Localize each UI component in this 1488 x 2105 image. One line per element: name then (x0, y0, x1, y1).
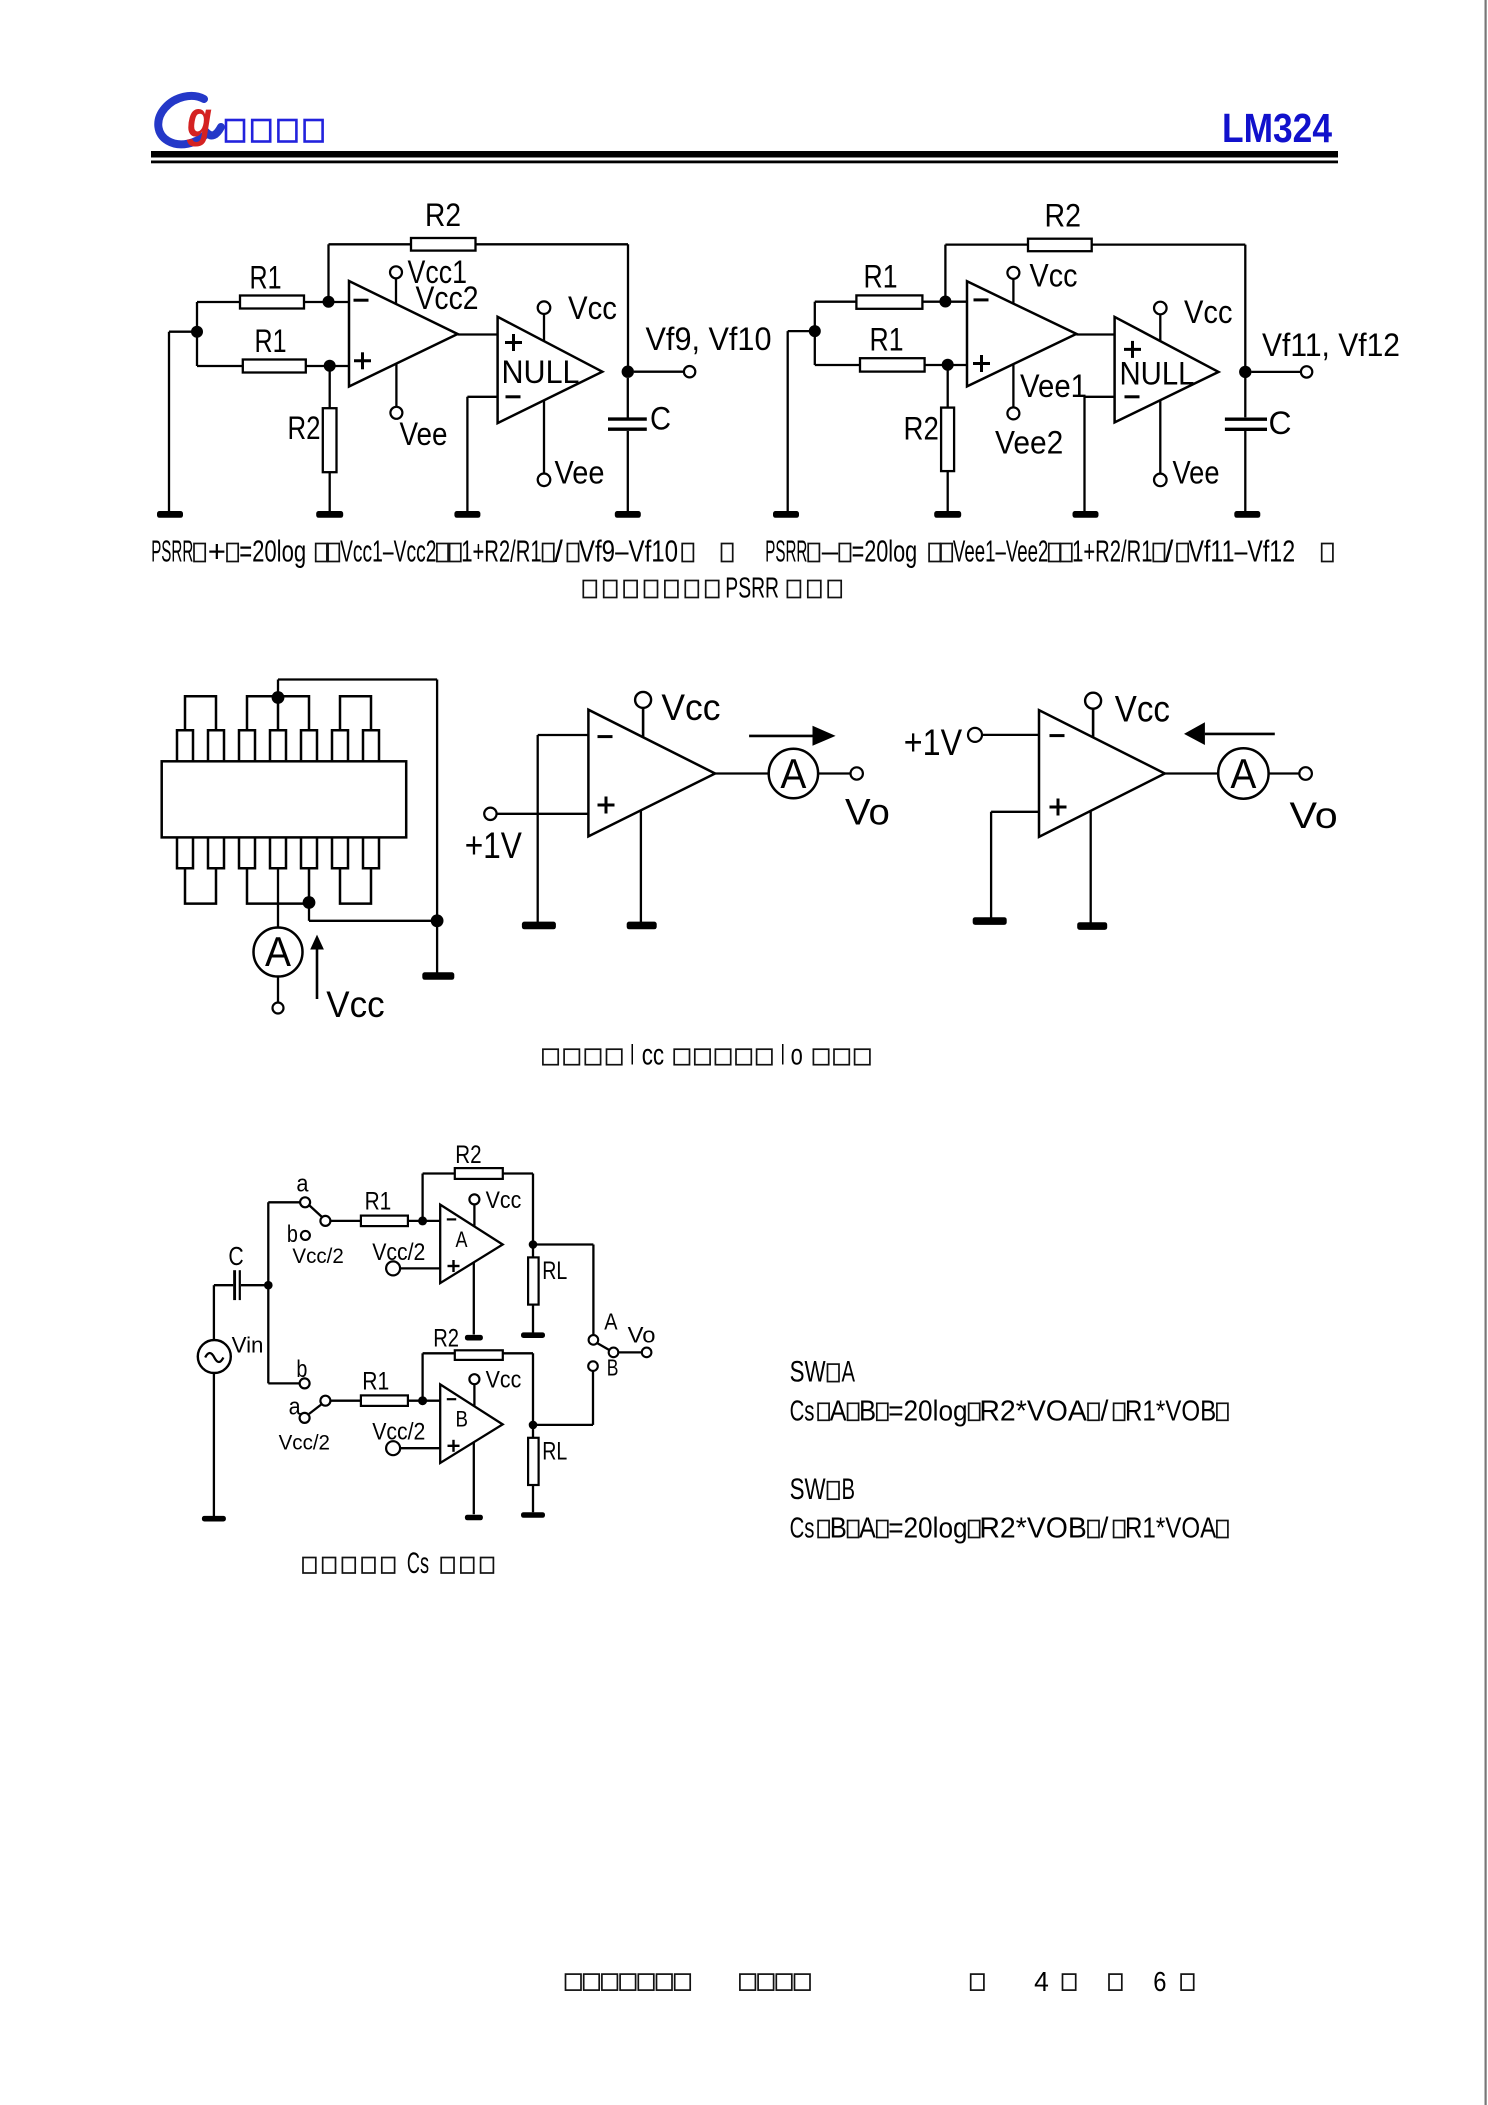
svg-text:Vo: Vo (845, 792, 890, 833)
node: output (622, 366, 634, 378)
terminal Vcc (B) (469, 1367, 521, 1407)
op-amp U3 (device under test) (967, 281, 1076, 386)
formula Cs(A to B) (790, 1395, 1228, 1427)
svg-text:Vcc: Vcc (1030, 257, 1078, 293)
svg-text:A: A (842, 1356, 856, 1389)
ground (inverting input) (522, 922, 556, 930)
formula Cs(B to A) (790, 1513, 1228, 1545)
ground (Vee) (627, 922, 657, 930)
svg-text:g: g (186, 91, 212, 147)
node: inverting input junction (939, 296, 951, 308)
svg-text:b: b (296, 1356, 307, 1383)
wire: bottom common to right rail (309, 904, 437, 921)
svg-text:6: 6 (1153, 1966, 1166, 1997)
pin bridge (bottom pins 1-2) (185, 868, 216, 903)
page right border (1485, 0, 1487, 2105)
resistor R1 (channel B) (330, 1367, 440, 1406)
svg-text:Vcc: Vcc (1115, 689, 1170, 730)
svg-text:=20log: =20log (888, 1395, 967, 1427)
svg-text:R2: R2 (904, 410, 939, 446)
switch SW-B contact a (Vcc/2) (279, 1393, 330, 1454)
node: non-inverting input junction (324, 360, 336, 372)
svg-text:a: a (296, 1171, 309, 1198)
svg-text:B: B (607, 1354, 619, 1380)
wire: B output to selector (533, 1424, 593, 1426)
svg-text:B: B (830, 1513, 847, 1545)
op-amp A2 (Io test) (1039, 710, 1165, 837)
svg-text:Vee: Vee (1173, 455, 1220, 491)
svg-text:Vee2: Vee2 (995, 424, 1063, 460)
wire: node to channel B switch (268, 1285, 300, 1383)
node: input junction (191, 302, 203, 366)
node: input junction (809, 302, 821, 365)
op-amp A1 (Icc test) (588, 710, 715, 837)
svg-text:+1V: +1V (904, 722, 963, 763)
svg-text:RL: RL (542, 1257, 567, 1285)
svg-text:/: / (554, 534, 563, 569)
svg-text:R2: R2 (1045, 198, 1082, 234)
svg-text:/: / (1165, 534, 1174, 569)
svg-text:Vf9–Vf10: Vf9–Vf10 (579, 534, 678, 569)
svg-text:B: B (456, 1407, 469, 1432)
wire: Vin to ground (213, 1373, 215, 1516)
footer text (CJK boxes, page 4 of 6) (566, 1966, 1194, 1997)
output selector pole / terminal Vo (609, 1323, 656, 1358)
wire: non-inverting input to ground (991, 812, 1039, 918)
op-amp A (440, 1205, 503, 1284)
wire: output to ammeter (715, 772, 769, 774)
svg-text:=20log: =20log (888, 1513, 967, 1545)
svg-text:Vcc: Vcc (486, 1367, 522, 1394)
ground (A load) (521, 1332, 545, 1338)
resistor R2 (channel B feedback) (433, 1325, 503, 1360)
terminal Vf9, Vf10 (output) (634, 321, 772, 377)
svg-text:=20log: =20log (239, 534, 306, 569)
ground (non-inverting input) (973, 917, 1007, 925)
svg-text:–: – (822, 534, 839, 569)
resistor R2 (to ground) (904, 365, 955, 512)
ground (B load) (521, 1512, 545, 1518)
ammeter A (supply current) (254, 928, 303, 977)
switch SW-A contact b (Vcc/2) (287, 1221, 344, 1268)
svg-text:LM324: LM324 (1222, 105, 1332, 151)
resistor R1 (channel A) (330, 1188, 440, 1227)
wire: A feedback (423, 1174, 455, 1221)
terminal Vcc (NULL amp) (1154, 294, 1233, 341)
node: B output (529, 1421, 538, 1430)
svg-text:SW: SW (790, 1473, 827, 1506)
pin bridge (top pins 6-7) (340, 696, 371, 730)
svg-text:Vcc: Vcc (326, 984, 384, 1025)
terminal Vcc (NULL amp) (538, 290, 617, 341)
switch SW-B pole (320, 1396, 330, 1406)
wire: A Vee to ground (473, 1263, 475, 1335)
switch SW-B lever (309, 1404, 322, 1414)
ground (below R2) (934, 511, 961, 518)
ammeter A (output current) (1218, 748, 1268, 798)
svg-text:R2: R2 (288, 410, 321, 446)
svg-text:A: A (456, 1227, 468, 1252)
svg-text:A: A (859, 1513, 876, 1545)
terminal +1V (non-inverting input) (465, 808, 589, 866)
op-amp U4 NULL amplifier (1115, 317, 1219, 423)
pin bridge (bottom pins 6-7) (340, 868, 371, 903)
terminal Vee1/Vee2 (U3 supply) (995, 364, 1087, 460)
svg-text:PSRR: PSRR (151, 534, 193, 569)
resistor RL (channel B load) (528, 1425, 567, 1512)
IC body DIP-14 (top view) (162, 761, 407, 837)
current arrow (in) (1184, 722, 1275, 745)
wire: U3 output to NULL amp input (1076, 333, 1114, 335)
terminal Vcc (A1 supply) (635, 687, 720, 737)
terminal Vee (NULL amp) (538, 400, 605, 490)
svg-text:R2: R2 (455, 1141, 481, 1169)
node: right rail junction (431, 914, 444, 927)
ground (B Vee) (465, 1515, 483, 1521)
terminal Vcc (A) (469, 1187, 521, 1227)
svg-text:B: B (842, 1473, 856, 1506)
label Vcc (supply) (326, 984, 384, 1025)
svg-text:RL: RL (542, 1437, 567, 1465)
node: A output (529, 1240, 538, 1249)
label SW to A (790, 1356, 855, 1389)
svg-text:Vcc: Vcc (486, 1187, 522, 1214)
svg-text:Vo: Vo (628, 1323, 656, 1348)
wire: NULL inverting input to ground (467, 397, 497, 512)
wire: NULL inverting input to ground (1085, 397, 1115, 512)
svg-text:Vcc: Vcc (661, 687, 720, 728)
svg-text:Vin: Vin (232, 1333, 264, 1358)
capacitor C (output filter) (1225, 378, 1292, 512)
terminal Vee (U1 supply) (390, 364, 447, 452)
svg-text:PSRR: PSRR (765, 534, 807, 569)
wire: Vee pin to ground (640, 810, 642, 922)
output selector contact A (589, 1308, 619, 1344)
resistor R2 (channel A feedback) (455, 1141, 503, 1179)
svg-text:Vee: Vee (555, 455, 605, 491)
svg-text:R2*VOA: R2*VOA (979, 1395, 1087, 1427)
formula PSRR(-) (765, 534, 1333, 569)
terminal Vf11, Vf12 (output) (1252, 327, 1401, 378)
svg-text:C: C (228, 1241, 243, 1271)
svg-text:Vcc: Vcc (1184, 294, 1233, 330)
svg-text:R1: R1 (864, 259, 898, 295)
ground (A Vee) (465, 1335, 483, 1341)
svg-text:Vcc/2: Vcc/2 (372, 1239, 425, 1266)
wire: top common to right rail (278, 680, 437, 697)
svg-text:Vcc/2: Vcc/2 (279, 1432, 330, 1455)
svg-text:A: A (604, 1308, 618, 1334)
svg-text:+: + (208, 534, 226, 569)
caption: Icc and Io test figure (CJK boxes) (543, 1039, 870, 1072)
svg-text:Vcc/2: Vcc/2 (292, 1245, 343, 1268)
svg-text:+1V: +1V (465, 825, 522, 866)
svg-text:=20log: =20log (852, 534, 918, 569)
terminal Vee (NULL amp) (1154, 401, 1220, 491)
company logo (158, 91, 221, 147)
node: capacitor output (241, 1281, 273, 1290)
terminal Vcc/2 (A non-inverting) (372, 1239, 440, 1276)
switch SW-A contact a (296, 1171, 310, 1208)
terminal Vo (1269, 767, 1338, 836)
resistor RL (channel A load) (528, 1245, 567, 1333)
svg-text:R2: R2 (433, 1325, 459, 1353)
wire: U1 output to NULL amp input (458, 333, 498, 335)
caption: crosstalk Cs test figure (CJK boxes) (303, 1547, 493, 1580)
svg-text:R1: R1 (255, 323, 287, 359)
ground (Vee) (1077, 922, 1107, 930)
svg-text:R2*VOB: R2*VOB (979, 1513, 1087, 1545)
wire: B feedback (423, 1353, 455, 1400)
svg-text:R1: R1 (250, 259, 282, 295)
svg-text:Vcc: Vcc (568, 290, 617, 326)
terminal +1V (inverting input) (904, 722, 1039, 763)
node: top common junction (272, 691, 285, 704)
resistor R1 (upper input) (815, 259, 967, 309)
part number LM324 (1222, 105, 1332, 151)
formula PSRR(+) (151, 534, 733, 569)
terminal Vcc/2 (B non-inverting) (372, 1419, 440, 1456)
label SW to B (790, 1473, 855, 1506)
terminal Vcc (A2 supply) (1085, 689, 1170, 738)
IC pins (top row 1-7) (177, 730, 379, 761)
ground (NULL input) (1073, 511, 1099, 518)
ground (NULL input) (454, 511, 480, 518)
wire: output to ammeter (1165, 772, 1218, 774)
resistor R1 (upper input) (197, 259, 349, 308)
pin bridge (top pins 3-5) (247, 696, 309, 730)
svg-text:Vf9, Vf10: Vf9, Vf10 (646, 321, 772, 357)
pin bridge (bottom pins 3-5) (247, 868, 309, 903)
svg-text:NULL: NULL (1120, 356, 1195, 392)
resistor R1 (lower input) (197, 323, 349, 373)
wire: Vee pin to ground (1090, 811, 1092, 923)
output selector lever (597, 1343, 610, 1350)
ground (right rail) (422, 972, 454, 980)
capacitor C (coupling) (228, 1241, 243, 1300)
svg-text:R2: R2 (425, 197, 461, 233)
svg-text:Vcc2: Vcc2 (416, 280, 479, 316)
svg-text:NULL: NULL (502, 354, 580, 390)
wire: node to channel A switch (268, 1202, 300, 1285)
wire: feedback to output node (476, 244, 629, 371)
resistor R2 (feedback) (1028, 198, 1092, 252)
node: B inverting input (418, 1396, 427, 1405)
svg-text:/: / (1100, 1395, 1109, 1427)
wire: selector B to channel B output (592, 1371, 594, 1425)
svg-text:C: C (1269, 405, 1292, 441)
ground (Vin) (202, 1516, 226, 1522)
wire: feedback to output node (1092, 245, 1246, 372)
header double rule (151, 151, 1338, 163)
ground (left input) (157, 511, 183, 518)
svg-text:/: / (1100, 1513, 1109, 1545)
svg-text:o: o (791, 1039, 803, 1072)
svg-text:Cs: Cs (407, 1547, 429, 1580)
svg-text:SW: SW (790, 1356, 827, 1389)
svg-text:R1*VOB: R1*VOB (1125, 1395, 1216, 1427)
svg-text:R1*VOA: R1*VOA (1125, 1513, 1217, 1545)
current arrow Vcc (310, 935, 324, 999)
svg-text:A: A (265, 928, 291, 975)
svg-text:4: 4 (1034, 1966, 1049, 1997)
resistor R1 (lower input) (815, 321, 967, 371)
svg-text:Vee1–Vee2: Vee1–Vee2 (953, 534, 1049, 569)
node: A inverting input (418, 1216, 427, 1225)
terminal Vcc1/Vcc2 (U1 supply) (390, 254, 479, 316)
op-amp B (440, 1384, 503, 1463)
switch SW-A pole (320, 1216, 330, 1226)
switch SW-B contact b (296, 1356, 309, 1388)
wire: input node to ground drop (left) (169, 332, 197, 512)
wire: feedback from inverting node (945, 245, 1028, 302)
wire: bottom pin 4 to ammeter (277, 868, 279, 927)
switch SW-A lever (310, 1206, 323, 1218)
op-amp U2 NULL amplifier (498, 317, 603, 423)
wire: input node to ground drop (left) (788, 331, 815, 512)
wire: inverting input feedback to ground (538, 735, 589, 923)
ground (below R2) (316, 511, 343, 518)
caption: PSRR test figure (CJK boxes) (583, 573, 841, 605)
svg-text:cc: cc (642, 1039, 664, 1072)
capacitor C (output filter) (608, 378, 671, 512)
wire: right rail (436, 680, 438, 973)
svg-text:Vcc1–Vcc2: Vcc1–Vcc2 (340, 534, 436, 569)
ammeter A (output current) (769, 749, 818, 798)
svg-text:PSRR: PSRR (725, 573, 779, 605)
ground (left input) (773, 511, 799, 518)
ground (below C) (1234, 511, 1260, 518)
svg-text:Vf11, Vf12: Vf11, Vf12 (1262, 327, 1400, 363)
wire: A feedback to output node (503, 1174, 533, 1245)
wire: Vin to coupling capacitor (214, 1285, 233, 1340)
wire: B Vee to ground (473, 1443, 475, 1515)
svg-text:A: A (780, 750, 806, 797)
node: inverting input junction (323, 296, 335, 308)
node: non-inverting input junction (942, 359, 954, 371)
current arrow (out) (749, 726, 836, 746)
svg-text:A: A (1230, 750, 1256, 797)
svg-text:I: I (630, 1039, 635, 1072)
pin bridge (top pins 1-2) (185, 696, 216, 730)
svg-text:Cs: Cs (790, 1395, 815, 1427)
op-amp U1 (device under test) (349, 281, 458, 387)
company name (missing CJK glyph boxes) (226, 120, 323, 142)
svg-text:Vee: Vee (400, 416, 448, 452)
wire: B feedback to output node (503, 1353, 533, 1425)
ground (below C) (615, 511, 641, 518)
svg-text:R1: R1 (870, 321, 904, 357)
AC source Vin (198, 1333, 264, 1374)
svg-text:Vo: Vo (1290, 795, 1338, 836)
terminal Vo (818, 767, 890, 832)
svg-text:A: A (830, 1395, 847, 1427)
wire: feedback from inverting node (329, 244, 412, 301)
resistor R2 (feedback) (411, 197, 476, 251)
svg-text:B: B (859, 1395, 876, 1427)
svg-text:1+R2/R1: 1+R2/R1 (1072, 534, 1152, 569)
svg-text:Vf11–Vf12: Vf11–Vf12 (1189, 534, 1296, 569)
terminal Vcc (U3 supply) (1007, 257, 1077, 303)
svg-text:a: a (289, 1393, 302, 1420)
resistor R2 (to ground) (288, 366, 337, 512)
node: bottom common junction (303, 896, 316, 909)
wire: A output to output selector (533, 1245, 593, 1336)
IC pins (bottom row 8-14) (177, 837, 379, 868)
svg-text:1+R2/R1: 1+R2/R1 (461, 534, 542, 569)
output selector contact B (588, 1354, 618, 1380)
svg-text:R1: R1 (365, 1188, 392, 1216)
terminal (Vcc source) (273, 977, 284, 1014)
svg-text:R1: R1 (362, 1367, 389, 1395)
svg-text:b: b (287, 1221, 298, 1248)
svg-text:Cs: Cs (790, 1513, 815, 1545)
svg-text:Vcc/2: Vcc/2 (372, 1419, 425, 1446)
svg-text:Vee1: Vee1 (1020, 368, 1087, 404)
svg-text:C: C (650, 401, 671, 437)
svg-text:I: I (781, 1039, 786, 1072)
node: output (1239, 366, 1251, 378)
